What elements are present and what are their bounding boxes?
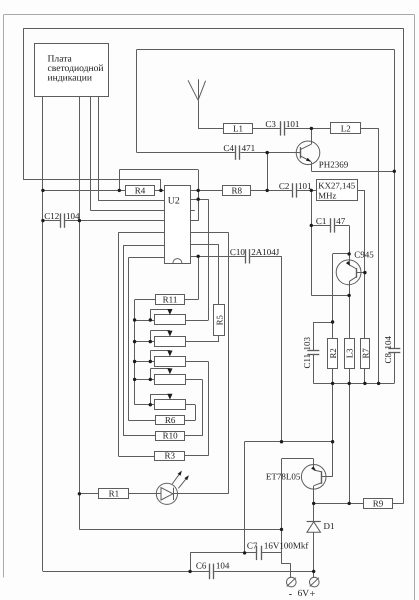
svg-text:471: 471 [242,143,256,153]
svg-text:C12: C12 [44,211,59,221]
svg-text:C8: C8 [383,352,393,363]
svg-text:ET78L05: ET78L05 [266,472,301,482]
svg-text:+: + [310,589,316,600]
svg-text:L3: L3 [345,348,355,358]
svg-text:R11: R11 [163,295,178,305]
svg-text:C945: C945 [354,249,374,259]
svg-text:R8: R8 [232,186,243,196]
svg-text:104: 104 [66,211,80,221]
svg-text:C6: C6 [196,561,207,571]
svg-text:R1: R1 [109,489,120,499]
svg-text:C3: C3 [265,119,276,129]
svg-text:R4: R4 [135,186,146,196]
svg-text:-: - [289,589,293,600]
svg-text:47: 47 [336,216,346,226]
svg-text:R10: R10 [163,430,179,440]
svg-text:C7: C7 [247,540,258,550]
svg-text:индикации: индикации [48,73,92,84]
svg-text:KX27,145: KX27,145 [318,181,355,191]
svg-text:R7: R7 [360,348,370,359]
svg-text:C10: C10 [230,247,246,257]
svg-text:R3: R3 [164,450,175,460]
svg-text:C11: C11 [302,354,312,369]
svg-text:2A104J: 2A104J [251,247,279,257]
svg-text:U2: U2 [168,195,180,206]
svg-text:C2: C2 [279,181,290,191]
svg-text:PH2369: PH2369 [319,159,349,169]
svg-text:6V: 6V [298,589,310,599]
svg-text:R9: R9 [373,498,384,508]
svg-text:L2: L2 [341,123,351,133]
svg-text:R6: R6 [165,415,176,425]
svg-text:R5: R5 [215,314,225,325]
svg-text:C1: C1 [316,216,327,226]
svg-text:C4: C4 [223,143,234,153]
svg-text:R2: R2 [328,348,338,358]
svg-text:104: 104 [383,336,393,350]
svg-text:101: 101 [298,181,312,191]
svg-text:101: 101 [286,119,300,129]
svg-text:MHz: MHz [318,191,336,201]
svg-text:103: 103 [302,337,312,351]
svg-text:104: 104 [216,561,230,571]
svg-text:16V100Mkf: 16V100Mkf [264,540,309,550]
svg-text:D1: D1 [324,521,335,531]
svg-text:L1: L1 [233,123,243,133]
